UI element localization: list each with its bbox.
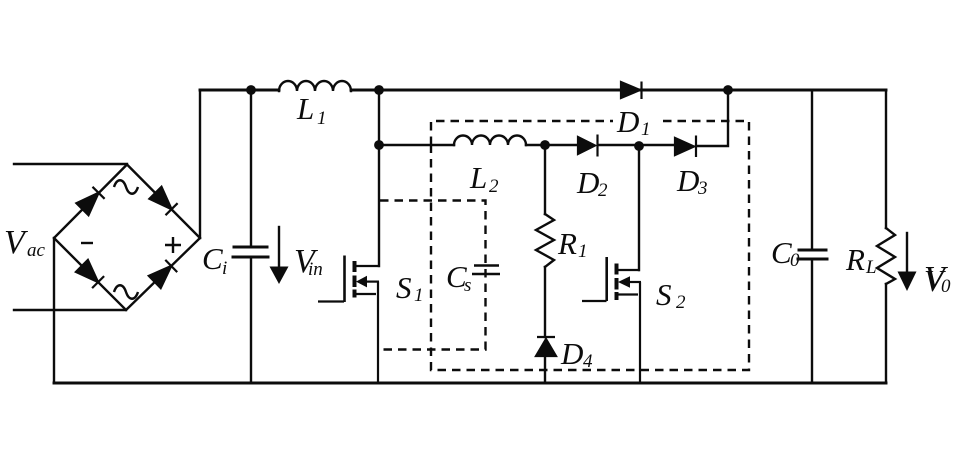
svg-text:D: D — [560, 336, 583, 371]
svg-text:L: L — [296, 91, 314, 126]
svg-text:1: 1 — [317, 108, 327, 129]
svg-text:R: R — [845, 242, 865, 277]
svg-text:V: V — [4, 224, 29, 261]
svg-text:C: C — [771, 235, 792, 270]
svg-text:D: D — [616, 104, 639, 139]
svg-text:1: 1 — [578, 241, 588, 262]
svg-text:R: R — [557, 226, 577, 261]
svg-text:S: S — [396, 270, 412, 305]
svg-text:0: 0 — [790, 250, 800, 271]
svg-text:1: 1 — [414, 285, 424, 306]
svg-text:4: 4 — [583, 351, 593, 372]
svg-text:L: L — [865, 257, 877, 278]
svg-text:S: S — [656, 277, 672, 312]
svg-text:in: in — [308, 259, 323, 280]
svg-text:C: C — [202, 241, 223, 276]
svg-text:2: 2 — [676, 292, 686, 313]
svg-text:s: s — [464, 275, 471, 296]
svg-text:1: 1 — [641, 119, 651, 140]
svg-text:D: D — [676, 163, 699, 198]
svg-text:D: D — [576, 165, 599, 200]
svg-text:0: 0 — [941, 276, 951, 297]
svg-text:2: 2 — [598, 180, 608, 201]
svg-text:i: i — [222, 258, 227, 279]
svg-text:2: 2 — [489, 176, 499, 197]
svg-text:L: L — [469, 160, 487, 195]
svg-text:ac: ac — [27, 240, 46, 261]
svg-text:3: 3 — [697, 178, 708, 199]
